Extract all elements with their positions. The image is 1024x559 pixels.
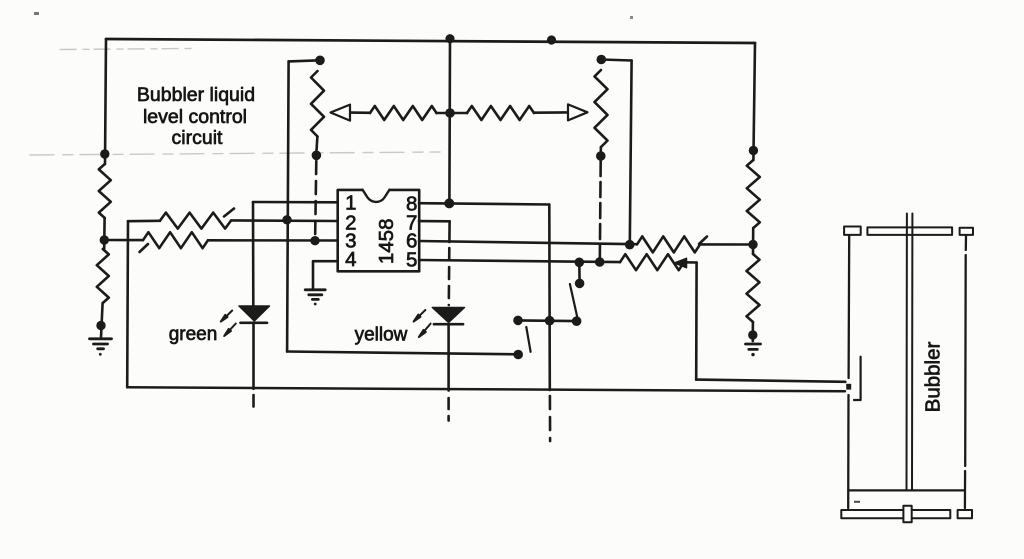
svg-text:yellow: yellow [355,325,408,346]
wire: R2 to ground [101,303,103,337]
wire: S2 stub [578,262,581,283]
wire: arrow shaft right [534,111,567,114]
arrow: R6 wiper arrowhead [675,258,687,267]
wire: VR1 to lower node [315,137,318,151]
wire: pin7 line [419,220,450,223]
svg-text:circuit: circuit [172,127,224,149]
wire: green branch stub below rail [252,395,255,407]
ground: pin4 ground symbol [305,290,325,306]
scan artifact line top-left [60,49,192,50]
wire: vertical feed x=287 down to switch wire [287,61,289,351]
node: junction on top rail at center vertical [445,34,454,43]
node: junction on right column [749,146,758,155]
resistor R7 (right upper, vertical) [747,160,760,228]
wire: R6 to corner [684,261,697,264]
bubbler: left wall [847,235,850,378]
bubbler: right pad [958,510,972,518]
wire: pin3 line left segment [104,239,143,242]
LED D2 yellow (triangle) [432,308,464,323]
tick artifact at R3 left [140,244,149,252]
wire: pin1 line [253,201,338,204]
tick artifact at R5 right [699,237,707,245]
bubbler: right wall (broken) [965,236,968,251]
wire: yellow LED cathode down through rail [447,325,450,391]
wire: left vertical from top rail [105,39,106,164]
LED D2 emission arrows [414,310,431,337]
arrow: left open arrowhead pointing at VR1 [331,105,351,121]
node: junction pin2 line / pot1-top feed [282,215,291,224]
svg-text:Bubbler liquid: Bubbler liquid [137,84,255,106]
wire: VR2 top feed vertical down to pin6 line [630,61,632,245]
resistor: arrow zigzag right half [467,106,534,120]
node: VR1 bottom junction [312,151,322,161]
resistor R8 (right lower, vertical) [747,254,760,322]
wire: top rail right corner down [753,43,755,160]
wire: arrow shaft left [351,111,370,114]
svg-text:level control: level control [143,106,247,128]
node: junction arrow / center vertical [445,108,455,118]
wire: bottom rail [127,387,845,391]
wire: bubbler feed horizontal [696,380,845,382]
switch S1 arm [526,327,530,352]
wire: VR2 top corner horizontal [601,60,631,61]
LED D1 emission arrows [221,311,236,337]
node: junction on left vertical [100,149,109,158]
wire: pin6 line from IC [419,241,637,244]
wire: dashed continuation below rail [549,396,552,441]
node: junction right divider / pin6 resistor [748,240,757,249]
node: junction dot on top rail [547,35,556,44]
node: S1 fixed contact at end of feed wire [513,350,523,360]
node: VR2 bottom junction [596,151,606,161]
wire: dashed VR2 wiper line down to pin5 line [598,161,602,262]
bubbler: right tube cap [960,228,973,235]
bubbler: center tab [903,506,911,523]
svg-text:Bubbler: Bubbler [922,342,945,413]
svg-text:green: green [169,324,218,345]
resistor R1 (left upper, vertical) [99,164,111,218]
speck [34,12,39,15]
node: junction pin5 line / VR2 wiper [595,257,605,267]
wire: vertical down to bubbler feed [695,263,698,380]
LED D1 green (triangle) [239,306,270,321]
wire: pin4 stub [313,261,338,288]
IC U1 notch [363,188,390,202]
node: junction above left ground [96,321,105,330]
ground: left ground symbol [90,339,112,356]
potentiometer VR2 (vertical zigzag) [595,70,608,147]
resistor R6 (pin5, with wiper arrow) [620,254,684,270]
ground: right ground symbol [746,344,761,356]
resistor R4 (to pin 2) [160,213,231,229]
arrow: right open arrowhead pointing at VR2 [568,104,588,120]
wire: VR2 to lower node [599,147,602,152]
bubbler: small speck inside [854,501,860,503]
svg-text:5: 5 [406,248,417,271]
wire: pin2 line right segment to IC [231,219,338,222]
bubbler: center tube [906,214,908,491]
wire: top supply rail [106,39,755,43]
resistor: arrow zigzag left half [370,106,437,120]
op-amp IC U1 1458 (DIP-8 body) [338,190,420,271]
bubbler: top bar [867,227,952,235]
wire: pin2 line left stub [128,220,160,223]
bubbler: probe electrode [854,357,861,400]
node: switch bus center junction [545,316,555,326]
node: switch bus right contact [572,316,582,326]
wire: R7 to node [752,228,755,254]
node: junction pin8 line / center vertical [444,198,454,208]
wire: pot1 top corner horizontal [289,60,320,61]
scan artifact line mid [30,152,440,155]
switch S2 arm [570,284,578,318]
wire: between R1 and R2 [103,218,106,249]
node: junction left vertical / pin3 line [100,235,109,244]
wire: arrow shaft center [437,112,468,115]
LED D1 cathode bar [241,321,268,324]
wire: yellow branch dashes below rail [447,398,450,421]
node: VR2 top junction [597,55,607,65]
resistor R2 (left lower, vertical) [97,249,109,303]
bubbler: bottom flange bar [841,510,950,518]
potentiometer VR1 (vertical zigzag) [311,71,324,137]
wire: vertical from pin2 resistor down to bottom rail [126,221,129,387]
bubbler: left tube cap [844,227,861,235]
speck [630,16,633,19]
wire: pin8 line to right corner [419,203,549,204]
node: pot VR1 top junction [315,56,325,66]
wire: pin7 corner down (solid then dashed) [448,221,451,242]
wire: R5 to right divider [700,243,753,246]
wire: switch bus horizontal [518,319,577,322]
node: switch bus left contact [513,316,523,326]
wire: dashed VR1 wiper line down to pin3 line [315,161,316,240]
node: junction above right ground [748,330,757,339]
wire: switch feed horizontal to S1 contact [287,352,518,355]
svg-text:4: 4 [345,248,356,271]
node: junction pin6 / VR2 top feed [625,240,635,250]
wire: vertical x=549.5 from pin8 corner down through rail [548,205,551,391]
wire: pin5 line from IC [419,260,620,262]
IC U1 pin number labels [345,192,417,272]
node: junction pin5 line / S2 stub [575,258,585,268]
wire: green LED anode line [252,202,255,306]
tick artifact at R4 right [224,209,234,217]
node: S2 upper contact [575,279,585,289]
wire: pin3 line right segment to IC [208,239,338,242]
node: junction pin3 line / pot1 wiper [310,236,319,245]
LED D2 cathode bar [434,323,463,326]
bubbler: wall feed-through blob [846,384,851,390]
title text: Bubbler liquid level control circuit [137,84,255,149]
wire: center vertical from top rail to pin8 line [448,39,451,204]
svg-text:1458: 1458 [375,218,398,264]
wire: green LED cathode down through rail [252,324,255,389]
resistor R5 (pin6 to divider) [637,236,700,252]
bubbler: bottom inner line [850,489,964,491]
resistor R3 (to pin 3) [143,232,208,248]
wire: R8 to ground [751,322,754,341]
